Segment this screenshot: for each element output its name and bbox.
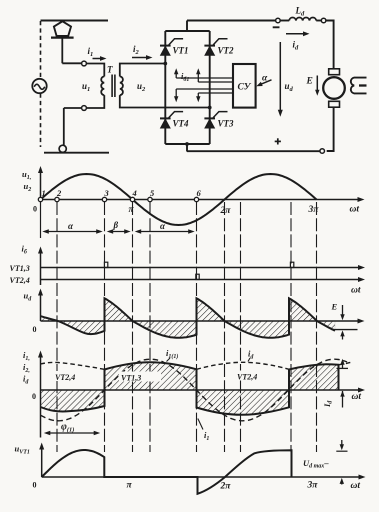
label 2pi plot5 [220, 482, 232, 492]
svg-text:3π: 3π [307, 481, 319, 491]
svg-text:2π: 2π [220, 206, 232, 216]
label VT1,3 inside block [119, 372, 161, 383]
label 2pi [220, 206, 232, 216]
svg-text:β: β [113, 220, 119, 230]
gate pulse arrow down VT4 [174, 89, 178, 102]
wire bridge top rail [165, 30, 209, 32]
label phi1 [61, 422, 74, 434]
plot5 y-axis [39, 443, 44, 478]
node time-mark dashed vertical x=240.5 [240, 202, 242, 452]
node point 6 circle [194, 188, 201, 202]
label alpha 2 [160, 221, 166, 231]
waveform uVT1 hump [42, 450, 292, 494]
E dim arrow bottom [340, 330, 344, 339]
svg-text:VT3: VT3 [218, 119, 235, 129]
plot2 y-axis [38, 247, 43, 286]
alpha span arrow 2 [135, 229, 195, 234]
wire bridge right rail [209, 31, 211, 144]
label VT2,4 [10, 276, 30, 285]
svg-text:VT2,4: VT2,4 [55, 373, 75, 382]
svg-text:2: 2 [56, 188, 62, 198]
Udmax dim arrow top [336, 440, 347, 451]
node AC1 junction [163, 62, 167, 66]
label T [107, 65, 113, 75]
wire gate lead 2 [198, 81, 233, 83]
wire primary top lead [86, 64, 104, 77]
wire primary bottom lead [86, 95, 104, 108]
svg-text:1: 1 [42, 188, 46, 198]
gate pulse arrow down VT3 [196, 93, 200, 102]
node time-mark dashed vertical x=104.5 [104, 202, 106, 452]
wire bottom-left rail [44, 152, 109, 154]
svg-text:4: 4 [132, 188, 137, 198]
transformer T secondary winding [120, 77, 123, 96]
svg-text:6: 6 [197, 188, 202, 198]
label VT1,3 [10, 264, 30, 273]
svg-text:i1,: i1, [23, 350, 30, 362]
plot2 line VT13 [41, 265, 366, 270]
svg-text:u2: u2 [137, 81, 146, 93]
label beta [113, 220, 119, 230]
label wt plot2 [351, 286, 361, 296]
node time-mark dashed vertical x=224.5 [224, 202, 226, 452]
label wt plot1 [350, 205, 360, 215]
svg-text:iб1: iб1 [181, 71, 189, 83]
label i1 i2 id [23, 350, 30, 386]
svg-text:0: 0 [33, 325, 37, 334]
node point 4 circle [130, 188, 136, 202]
plot5 time axis [42, 475, 366, 480]
EMF arrow E [315, 76, 319, 96]
dashed current id part1 [41, 362, 105, 369]
svg-text:VT1,3: VT1,3 [10, 264, 30, 273]
plot3 hatch region A1 [41, 316, 59, 321]
wire [316, 20, 321, 22]
terminal primary top [82, 61, 87, 66]
label E plot3 [331, 302, 338, 312]
Id dim arrow top [340, 359, 344, 369]
label id [293, 40, 300, 52]
Id dim tick [337, 367, 349, 369]
current arrow i2 [132, 55, 153, 60]
plot4 hatch block 2 [105, 362, 197, 390]
label VT2,4 b [235, 371, 276, 382]
plot3 time axis [41, 319, 365, 324]
thyristor VT2 [204, 39, 227, 55]
plot3 hatch region B [105, 298, 197, 338]
voltage arrow ud [278, 42, 283, 117]
svg-text:E: E [331, 302, 338, 312]
svg-text:α: α [68, 221, 74, 231]
svg-text:i2: i2 [133, 44, 140, 56]
Id dim arrow bottom [340, 391, 344, 408]
node time-mark dashed vertical x=196.5 [196, 202, 198, 452]
label ud plot3 [24, 291, 33, 303]
transformer T primary winding [101, 77, 104, 96]
svg-text:СУ: СУ [238, 83, 252, 93]
gate pulse VT24 [196, 274, 199, 279]
wire DC minus tap [186, 144, 188, 152]
svg-text:iб: iб [22, 244, 28, 256]
alpha span arrow [42, 229, 102, 234]
wire [280, 20, 289, 22]
motor field winding [351, 78, 367, 94]
svg-text:u1,: u1, [22, 169, 31, 181]
label VT2,4 a [54, 371, 94, 382]
svg-text:VT1: VT1 [173, 46, 189, 56]
wire gate lead 3 [176, 88, 233, 90]
label 3pi [308, 205, 320, 215]
motor M armature [323, 69, 345, 107]
wire bridge bottom rail [165, 143, 209, 145]
label wt plot5 [351, 481, 361, 491]
plot3 hatch region D [289, 298, 335, 330]
wire riser [63, 108, 65, 145]
label VT2 [218, 46, 235, 56]
node bottom tap junction [185, 142, 189, 146]
waveform ud [41, 298, 336, 338]
wire bridge left rail [164, 31, 166, 144]
label 0 plot4 [32, 392, 36, 401]
svg-text:0: 0 [33, 481, 37, 490]
waveform u1 u2 sine [41, 174, 317, 225]
gate pulse arrow up VT2 [196, 68, 200, 82]
svg-text:Ud max–: Ud max– [303, 458, 329, 470]
svg-text:VT2: VT2 [218, 46, 235, 56]
svg-text:VT2,4: VT2,4 [10, 276, 30, 285]
dashed current id part2 [197, 362, 290, 369]
label 0 plot5 [33, 481, 37, 490]
control unit CU box [233, 64, 256, 108]
label plus [275, 138, 281, 144]
plot4 hatch block 1 [41, 390, 105, 411]
current label i1 [88, 46, 94, 58]
dashed fundamental i1(1) [41, 359, 348, 421]
node point 2 circle [55, 188, 62, 202]
wire breaker to transformer [62, 62, 81, 64]
terminal bottom circle [59, 145, 66, 152]
svg-text:π: π [129, 205, 135, 215]
node time-mark dashed vertical x=291 [290, 202, 292, 452]
current arrow id [286, 31, 310, 36]
inductor Ld [289, 18, 316, 21]
svg-text:u2: u2 [24, 181, 32, 193]
label CU [238, 83, 252, 93]
label gate current ib1 [181, 71, 189, 83]
transformer T core [112, 75, 115, 98]
svg-text:u1: u1 [82, 81, 90, 93]
label wt plot4 [352, 392, 362, 402]
svg-text:ωt: ωt [350, 205, 360, 215]
svg-text:φ(1): φ(1) [61, 422, 74, 434]
plot4 hatch block 3 [197, 390, 290, 415]
beta span arrow [107, 229, 131, 234]
plot1 y-axis [38, 166, 43, 200]
waveform i1 blocks [41, 362, 339, 415]
svg-text:0: 0 [33, 205, 37, 214]
svg-text:5: 5 [150, 188, 155, 198]
wire right rail top [326, 21, 334, 69]
wire mains dashed line [40, 21, 42, 147]
gate pulse VT13 b [290, 262, 293, 267]
phi span arrow [44, 431, 100, 436]
svg-text:Id: Id [322, 400, 334, 408]
wire DC plus tap [186, 21, 188, 32]
label Id rotated [322, 400, 334, 408]
node AC2 junction [208, 106, 212, 110]
plot4 time axis [41, 388, 366, 393]
label alpha 1 [68, 221, 74, 231]
label uVT1 [15, 444, 30, 456]
plot4 y-axis [38, 351, 43, 438]
EMF level line [332, 329, 358, 331]
wire gate lead 4 [198, 92, 233, 94]
wire DC bottom bus [187, 150, 320, 152]
label minus [273, 26, 280, 28]
svg-text:ud: ud [24, 291, 33, 303]
dashed current id part3 [339, 362, 353, 365]
svg-text:T: T [107, 65, 113, 75]
node time-mark dashed vertical x=150 [149, 202, 151, 452]
label VT4 [173, 119, 190, 129]
wire primary bottom to riser [64, 107, 82, 109]
node time-mark dashed vertical x=316.5 [316, 202, 318, 452]
label 3pi plot5 [307, 481, 319, 491]
E dim arrow top [340, 305, 344, 320]
label 0 plot1 [33, 205, 37, 214]
svg-text:π: π [127, 481, 133, 491]
label VT1 [173, 46, 189, 56]
plot2 line VT24 [41, 277, 366, 282]
circuit breaker QF1 [51, 21, 74, 63]
current label i2 [133, 44, 140, 56]
svg-text:id: id [293, 40, 300, 52]
node time-mark dashed vertical x=132.5 [132, 202, 134, 452]
gate pulse arrow up VT1 [174, 68, 178, 78]
svg-text:i1: i1 [88, 46, 94, 58]
svg-text:VT1,3: VT1,3 [121, 374, 141, 383]
wire secondary bottom [120, 95, 209, 107]
Udmax dim arrow bottom [340, 478, 344, 485]
label Udmax [303, 458, 329, 470]
wire secondary top [120, 64, 165, 77]
svg-text:3π: 3π [308, 205, 320, 215]
svg-text:id: id [248, 349, 254, 361]
svg-text:2π: 2π [220, 482, 232, 492]
svg-text:VT4: VT4 [173, 119, 190, 129]
wire right rail bottom [327, 107, 334, 151]
label E [306, 77, 313, 87]
label alpha input [262, 74, 268, 84]
svg-text:ωt: ωt [352, 392, 362, 402]
svg-text:id: id [23, 374, 29, 386]
wire gate lead 1 [176, 77, 233, 79]
thyristor VT4 [160, 112, 183, 128]
label pi plot5 [127, 481, 133, 491]
svg-text:i1(1): i1(1) [166, 348, 178, 360]
svg-text:i1: i1 [204, 430, 209, 442]
label VT3 [218, 119, 235, 129]
svg-text:i2,: i2, [23, 362, 30, 374]
node point 5 circle [148, 188, 155, 202]
label i1(1) [166, 348, 178, 362]
svg-text:ωt: ωt [351, 481, 361, 491]
wire DC top bus [187, 20, 276, 22]
voltage label u1 [82, 81, 90, 93]
voltage label u2 [137, 81, 146, 93]
current arrow i1 [93, 56, 107, 61]
label id plot4 [248, 349, 254, 362]
plot3 y-axis [38, 289, 43, 322]
svg-text:VT2,4: VT2,4 [237, 373, 257, 382]
svg-text:Ld: Ld [295, 6, 306, 18]
node time-mark dashed vertical x=57 [56, 202, 58, 452]
label pi [129, 205, 135, 215]
label i1 with pointer [198, 419, 210, 443]
thyristor VT3 [204, 112, 227, 128]
plot1 time axis [41, 197, 365, 202]
terminal bottom right [320, 149, 325, 154]
thyristor VT1 [160, 39, 183, 55]
plot3 hatch region C [197, 298, 290, 338]
AC source G1 [32, 79, 46, 93]
svg-text:0: 0 [32, 392, 36, 401]
label Ld [295, 6, 306, 18]
plot4 hatch block 4 [289, 364, 339, 390]
terminal primary bottom [82, 106, 87, 111]
svg-text:E: E [306, 77, 313, 87]
label 0 plot3 [33, 325, 37, 334]
terminal Ld right [321, 18, 326, 23]
svg-text:ud: ud [285, 81, 294, 93]
plot1 y-axis lower tick [40, 200, 42, 239]
svg-text:ωt: ωt [351, 286, 361, 296]
svg-text:3: 3 [104, 188, 110, 198]
label ud [285, 81, 294, 93]
svg-text:uVT1: uVT1 [15, 444, 30, 456]
node point 3 circle [102, 188, 109, 202]
wire top-left rail [41, 20, 109, 22]
terminal Ld left [276, 18, 281, 23]
label ib [22, 244, 28, 256]
label u1 u2 [22, 169, 31, 193]
plot3 hatch region A2 [58, 321, 105, 334]
node point 1 circle [38, 188, 45, 202]
gate pulse VT13 a [104, 262, 107, 267]
alpha arrow into CU [256, 80, 271, 86]
